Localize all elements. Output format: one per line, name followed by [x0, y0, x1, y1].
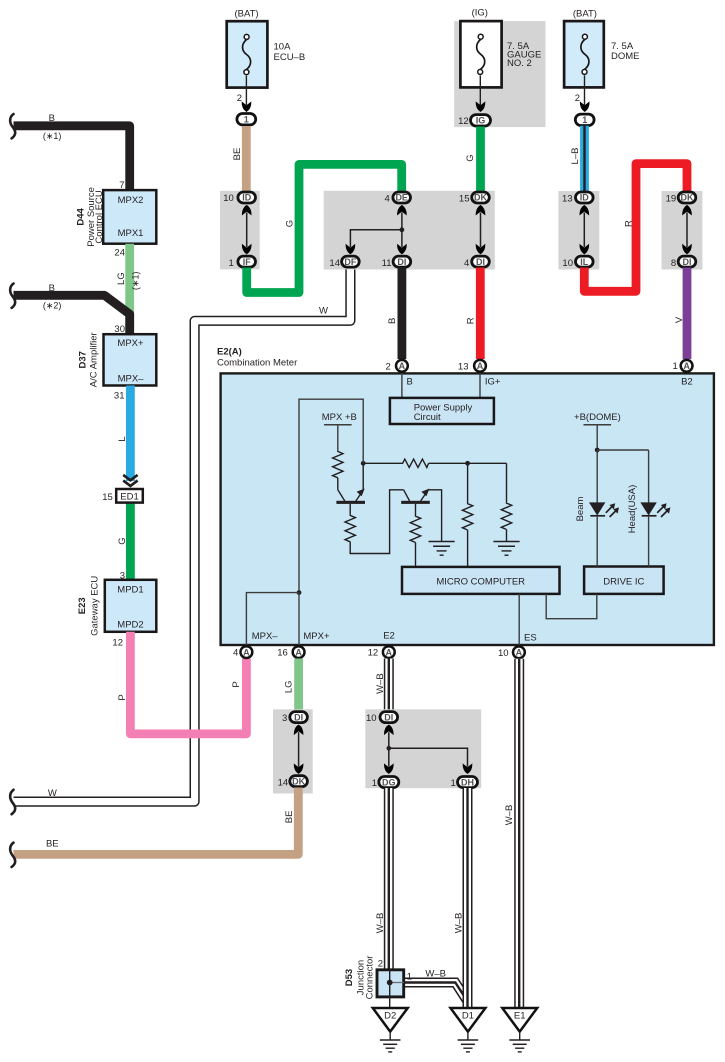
pin label MPX- [252, 631, 279, 642]
svg-text:LG: LG [284, 680, 295, 693]
wire DK-DI link [686, 213, 688, 248]
svg-text:A: A [516, 648, 523, 658]
meter pin 2 [386, 360, 408, 373]
wire Q2 base resistor to micro computer [415, 543, 417, 568]
junction dot MPX [297, 590, 302, 595]
brace W [10, 790, 15, 814]
svg-text:W–B: W–B [453, 913, 464, 934]
svg-text:E1: E1 [514, 1011, 526, 1022]
svg-text:MPX+: MPX+ [303, 631, 330, 642]
svg-text:E2(A): E2(A) [217, 346, 242, 357]
drive ic box [584, 567, 664, 594]
pin 15 [102, 492, 113, 503]
svg-text:MPX +B: MPX +B [322, 412, 357, 423]
svg-text:1: 1 [407, 971, 412, 982]
pin 10 [366, 713, 377, 724]
svg-text:DRIVE IC: DRIVE IC [603, 576, 644, 587]
svg-text:14: 14 [278, 777, 289, 788]
meter pin 12 [368, 646, 395, 659]
meter pin 10 [498, 646, 525, 659]
svg-text:IG+: IG+ [485, 376, 501, 387]
power supply circuit box [390, 398, 494, 424]
connector DI 3 [290, 712, 308, 723]
svg-text:2: 2 [386, 362, 391, 373]
pin 14 [278, 777, 289, 788]
svg-text:19: 19 [666, 193, 677, 204]
svg-text:(∗1): (∗1) [131, 272, 141, 291]
pin 31 [114, 391, 125, 402]
wire IG+ to power supply [479, 373, 481, 399]
wire Q1 base chain [349, 504, 351, 515]
svg-text:LG: LG [116, 272, 127, 285]
connector DK 19 [678, 192, 696, 203]
ECU D44 [103, 190, 156, 244]
fuse value 7.5A GAUGE NO.2 [507, 41, 541, 69]
svg-text:DI: DI [384, 712, 393, 722]
fuse label (BAT) dome [573, 8, 597, 19]
LED Head(USA) [640, 502, 670, 566]
svg-text:A: A [295, 647, 302, 657]
pin 10 [562, 258, 573, 269]
LED Beam [589, 502, 619, 566]
arrow up into ID [242, 205, 252, 216]
svg-text:P: P [117, 694, 128, 700]
ground D2 [373, 1008, 408, 1052]
wire fuse2 lead [479, 75, 481, 105]
pin 12 [112, 637, 123, 648]
connector DI 8 [678, 256, 696, 267]
connector shading box (IG fuse) [454, 21, 545, 127]
wire DK-DI link [480, 213, 482, 248]
svg-text:W: W [48, 788, 57, 799]
wire V (DI8 to meter pin 1) [674, 268, 687, 360]
wire BE (fuse1 to ID) [232, 126, 246, 191]
svg-text:G: G [117, 537, 128, 544]
label Head(USA) [627, 485, 638, 534]
svg-text:D37: D37 [77, 351, 88, 368]
brace BE [10, 843, 15, 867]
resistor column A [462, 503, 472, 530]
svg-text:L: L [117, 436, 128, 441]
pin label B2 [681, 376, 693, 387]
svg-text:R: R [465, 317, 476, 324]
wire W-B (pin 10 ES to E1 ground) [504, 659, 519, 1009]
wire B(*1) [14, 113, 130, 190]
svg-text:DK: DK [474, 193, 487, 203]
pin label B [407, 376, 413, 387]
svg-text:DF: DF [344, 257, 356, 267]
svg-text:4: 4 [233, 648, 238, 659]
svg-text:DI: DI [397, 257, 406, 267]
svg-text:A: A [386, 647, 393, 657]
connector DI 10 [380, 712, 398, 723]
arrow up into DI 3 [294, 725, 304, 736]
pin 1 DH [451, 778, 456, 789]
pin label IG+ [485, 376, 501, 387]
label Beam [575, 497, 586, 522]
arrow down into DI 8 [682, 244, 692, 255]
svg-text:IG: IG [476, 116, 486, 126]
wire BE (DK14 to brace) [14, 788, 299, 855]
svg-text:A: A [477, 361, 484, 371]
fuse label (BAT) [234, 8, 258, 19]
pin 14 [329, 258, 340, 269]
svg-text:A: A [683, 361, 690, 371]
wire micro computer to drive ic [546, 594, 597, 619]
ground column B [493, 542, 519, 556]
fuse value 7.5A DOME [611, 41, 640, 62]
svg-text:ES: ES [524, 632, 537, 643]
svg-text:IF: IF [243, 257, 252, 267]
pin label E2 [383, 631, 395, 642]
wire R (DI4 to meter pin 13) [465, 268, 480, 360]
wire P [117, 632, 246, 734]
arrow up into DK 19 [682, 205, 692, 216]
wire junction down column A [467, 463, 469, 503]
fuse value 10A ECU-B [274, 42, 306, 64]
fuse 10A ECU-B [227, 21, 268, 87]
wire G (IF to DE) [247, 164, 402, 292]
node 1 [237, 114, 256, 125]
svg-text:4: 4 [385, 193, 390, 204]
svg-text:24: 24 [114, 248, 125, 259]
svg-text:12: 12 [458, 116, 469, 127]
connector DK 15 [472, 192, 490, 203]
svg-text:10A: 10A [274, 42, 292, 53]
svg-text:31: 31 [114, 391, 125, 402]
wire G (ED1 to E23) [117, 498, 130, 580]
connector DI 4 [472, 256, 490, 267]
label E2(A) Combination Meter [217, 346, 297, 368]
node +B(DOME) [574, 412, 621, 450]
svg-text:+B(DOME): +B(DOME) [574, 412, 621, 423]
connector IL [576, 256, 594, 267]
arrow down into DI 4 [476, 244, 486, 255]
svg-text:V: V [674, 316, 685, 323]
amplifier D37 [104, 334, 157, 385]
svg-text:Combination Meter: Combination Meter [217, 358, 297, 369]
svg-text:B2: B2 [681, 376, 693, 387]
wire Q1 base to Q2 collector [350, 490, 403, 554]
svg-text:BE: BE [284, 811, 295, 824]
svg-text:MPX–: MPX– [252, 631, 279, 642]
pin 2 [378, 958, 383, 969]
wire W [14, 267, 351, 802]
pin label MPX+ [303, 631, 330, 642]
wire resistor to junction [429, 462, 468, 464]
pin 19 [666, 193, 677, 204]
pin 1 [229, 258, 234, 269]
svg-text:3: 3 [282, 713, 287, 724]
node IG [471, 115, 491, 126]
wire junction to right column [468, 462, 507, 464]
junction dot resistor row [465, 461, 470, 466]
ground D1 [451, 1008, 486, 1052]
svg-text:10: 10 [223, 193, 234, 204]
arrow up into DE [397, 205, 407, 216]
label E23 Gateway ECU [77, 576, 100, 636]
label D53 Junction Connector [344, 956, 375, 1000]
wire W-B (D53 to D1 wire) [404, 968, 469, 1003]
svg-text:MPX–: MPX– [118, 374, 145, 385]
node 1 [575, 114, 594, 125]
svg-text:MPX1: MPX1 [118, 228, 144, 239]
wire DE to junction [401, 213, 403, 230]
connector shading box ID/IF [220, 191, 260, 270]
svg-text:B: B [407, 376, 413, 387]
arrow up into DI 10 [384, 725, 394, 736]
svg-text:1: 1 [673, 361, 678, 372]
wire ID-IF link [246, 213, 248, 248]
svg-text:Connector: Connector [364, 956, 375, 1000]
wire DI10 to junction [388, 732, 390, 748]
arrow down into DK 14 [294, 763, 304, 774]
svg-text:L–B: L–B [570, 148, 581, 165]
transistor Q2 [401, 489, 441, 542]
svg-text:(BAT): (BAT) [573, 8, 597, 19]
fuse label (IG) [472, 8, 488, 19]
svg-text:NO. 2: NO. 2 [507, 58, 532, 69]
node MPX +B [322, 412, 357, 451]
pin 1 DG [372, 778, 377, 789]
junction dot DI10 [387, 746, 392, 751]
pin 11 [382, 258, 392, 269]
svg-text:BE: BE [46, 838, 59, 849]
pin 3 [282, 713, 287, 724]
wire B(*2) [14, 283, 130, 335]
junction connector D53 [377, 970, 404, 997]
arrow up into ID 13 [579, 205, 589, 216]
arrow down into DI [397, 244, 407, 255]
svg-text:D44: D44 [75, 207, 86, 225]
svg-text:IL: IL [580, 257, 589, 267]
transistor Q1 [336, 463, 365, 504]
svg-text:G: G [284, 220, 295, 227]
meter pin 16 [277, 646, 304, 659]
wire W-B (DH to D1 ground) [453, 788, 467, 1009]
wire ID-IL link [583, 213, 585, 248]
wire MPX- internal [246, 593, 299, 646]
svg-text:(∗1): (∗1) [43, 131, 62, 141]
svg-text:P: P [231, 681, 242, 687]
svg-text:15: 15 [102, 492, 113, 503]
wire Q2 base [415, 504, 417, 516]
svg-text:D53: D53 [344, 969, 355, 986]
wire W-B (DG to D53) [375, 788, 389, 970]
pin 30 [114, 324, 125, 335]
pin 2 [237, 93, 242, 104]
svg-text:DE: DE [395, 193, 408, 203]
chevron into ED1 [123, 475, 137, 486]
svg-text:MPX2: MPX2 [118, 195, 144, 206]
svg-text:1: 1 [582, 115, 587, 125]
label D37 A/C Amplifier [77, 332, 99, 387]
svg-text:12: 12 [112, 637, 123, 648]
svg-text:A: A [243, 647, 250, 657]
svg-text:2: 2 [237, 93, 242, 104]
wire Q1 emitter to resistor row [363, 462, 402, 464]
pin label ES [524, 632, 537, 643]
resistor Q1 collector [333, 451, 343, 478]
wire B (DI11 to meter pin 2) [387, 268, 402, 360]
svg-text:D2: D2 [384, 1011, 396, 1022]
svg-text:DI: DI [476, 257, 485, 267]
svg-text:10: 10 [498, 648, 509, 659]
svg-text:Gateway ECU: Gateway ECU [89, 576, 100, 636]
label D44 Power Source Control ECU [75, 187, 104, 247]
fuse 7.5A DOME [564, 21, 604, 87]
svg-text:E23: E23 [77, 597, 88, 614]
svg-text:ECU–B: ECU–B [274, 52, 306, 63]
svg-text:1: 1 [244, 114, 249, 124]
wire resistor to Q1 [337, 478, 339, 490]
wire G (IG fuse to DK) [465, 127, 481, 192]
svg-text:MPX+: MPX+ [117, 338, 144, 349]
svg-text:11: 11 [382, 258, 392, 269]
svg-text:ID: ID [242, 193, 252, 203]
svg-text:BE: BE [232, 148, 243, 161]
arrow into node 1 [580, 101, 590, 112]
connector DE [393, 192, 411, 203]
svg-text:DOME: DOME [611, 51, 640, 62]
connector DH [458, 777, 478, 788]
brace B(*1) [10, 114, 15, 138]
svg-text:B: B [49, 283, 55, 294]
pin 15 [459, 193, 470, 204]
micro computer box [402, 567, 560, 594]
svg-text:1: 1 [451, 778, 456, 789]
pin 4 [464, 258, 469, 269]
wire D53 to D2 ground [389, 997, 391, 1009]
connector shading box ID/IL [558, 191, 599, 270]
svg-text:1: 1 [229, 258, 234, 269]
resistor Q2 base [410, 516, 420, 543]
svg-text:W–B: W–B [425, 968, 446, 979]
svg-text:R: R [624, 220, 635, 227]
connector shading box DI10/DG/DH [365, 709, 481, 788]
arrow down into IL [579, 244, 589, 255]
svg-text:15: 15 [459, 193, 470, 204]
svg-text:16: 16 [277, 648, 288, 659]
svg-text:A/C Amplifier: A/C Amplifier [88, 332, 99, 387]
wire column A to micro computer [467, 530, 469, 567]
wire L-B (fuse3 to ID) [570, 126, 584, 191]
svg-text:12: 12 [368, 648, 379, 659]
connector shading box DE/DF/DI/DK/DI [324, 191, 495, 270]
pin 12 [458, 116, 469, 127]
svg-text:DI: DI [294, 712, 303, 722]
svg-text:W–B: W–B [375, 913, 386, 934]
meter pin 4 [233, 646, 252, 659]
svg-text:DK: DK [681, 193, 694, 203]
svg-text:DH: DH [461, 777, 474, 787]
ground Q2 emitter [429, 542, 455, 556]
connector ID 13 [576, 192, 594, 203]
svg-text:DI: DI [683, 257, 692, 267]
wire fuse3 lead [584, 75, 586, 105]
svg-text:14: 14 [329, 258, 340, 269]
svg-text:MPD2: MPD2 [117, 619, 143, 630]
svg-text:Beam: Beam [575, 497, 586, 522]
wire ES internal [518, 594, 520, 645]
wire R (IL to DK19) [584, 164, 687, 292]
pin 3 [120, 570, 125, 581]
svg-text:10: 10 [366, 713, 377, 724]
wire MPX+ internal [298, 593, 300, 646]
svg-text:(IG): (IG) [472, 8, 488, 19]
connector DF [342, 256, 360, 267]
pin 4 [385, 193, 390, 204]
pin 13 [562, 193, 573, 204]
svg-text:B: B [49, 113, 55, 124]
pin 10 [223, 193, 234, 204]
pin 2 [575, 93, 580, 104]
wire column B to ground [506, 530, 508, 542]
svg-text:B: B [387, 318, 398, 324]
svg-text:A: A [399, 361, 406, 371]
meter pin 1 [673, 360, 693, 372]
wire column B [506, 463, 508, 502]
wire junction to DI [401, 230, 403, 247]
svg-text:W: W [319, 306, 328, 317]
svg-text:(∗2): (∗2) [43, 301, 62, 311]
wire MPX feedback (dot up-left-down to MPX pins) [299, 399, 363, 592]
junction dot dome [595, 448, 600, 453]
connector ED1 [116, 489, 143, 503]
svg-text:MICRO COMPUTER: MICRO COMPUTER [436, 576, 525, 587]
svg-text:4: 4 [464, 258, 469, 269]
connector IF [238, 256, 256, 267]
arrow down into IF [242, 244, 252, 255]
svg-text:E2: E2 [383, 631, 395, 642]
resistor column B [501, 503, 511, 530]
connector shading box DI3/DK14 [273, 709, 313, 793]
pin 7 [119, 180, 124, 191]
connector DG [379, 777, 399, 788]
svg-text:13: 13 [458, 362, 469, 373]
pin 24 [114, 248, 125, 259]
connector DI 11 [393, 256, 411, 267]
svg-text:MPD1: MPD1 [117, 585, 143, 596]
svg-text:Head(USA): Head(USA) [627, 485, 638, 534]
brace B(*2) [10, 284, 15, 308]
svg-text:Circuit: Circuit [414, 412, 441, 423]
svg-text:(BAT): (BAT) [234, 8, 258, 19]
svg-text:13: 13 [562, 193, 573, 204]
wire fuse1 lead [245, 76, 247, 105]
connector ID [238, 192, 256, 203]
ground E1 [502, 1008, 537, 1052]
wire B to power supply [401, 373, 403, 399]
wire LG (D44 to D37) [116, 244, 141, 335]
wire junction to DH [389, 748, 468, 767]
wire dome split [597, 450, 648, 503]
svg-text:DK: DK [292, 776, 305, 786]
svg-text:W–B: W–B [375, 673, 386, 694]
connector shading box DK/DI right [662, 191, 703, 270]
svg-text:Control ECU: Control ECU [94, 190, 105, 243]
pin 1 [407, 971, 412, 982]
combination meter box E2(A) [221, 373, 714, 645]
arrow into node 1 [242, 101, 252, 112]
arrow into node IG [476, 101, 486, 112]
wire W-B (pin 12 to DI10) [375, 659, 389, 712]
svg-text:D1: D1 [462, 1011, 474, 1022]
arrow down into DH [463, 763, 473, 774]
junction dot [400, 227, 405, 232]
svg-text:2: 2 [378, 958, 383, 969]
meter pin 13 [458, 360, 486, 373]
